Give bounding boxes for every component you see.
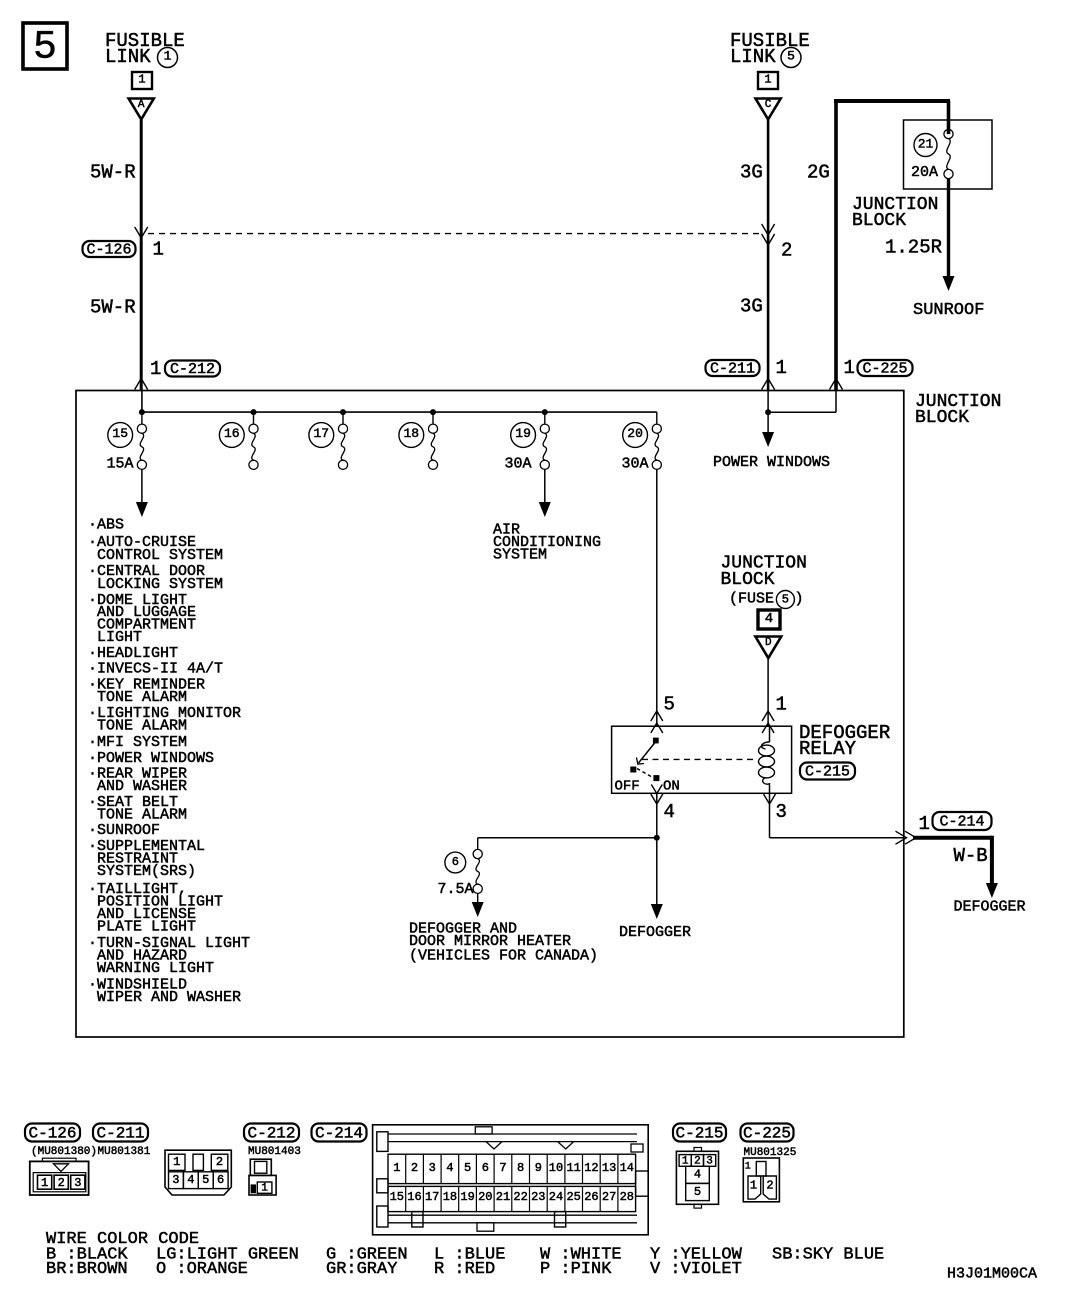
svg-text:12: 12 bbox=[584, 1161, 598, 1175]
label 5W-R lower bbox=[90, 297, 136, 319]
svg-text:6: 6 bbox=[452, 855, 459, 869]
triangle C (fusible link 5) bbox=[756, 99, 781, 120]
connector C-212 drawing bbox=[249, 1159, 276, 1195]
svg-text:1: 1 bbox=[750, 1179, 757, 1193]
connector label C-212 (bottom) bbox=[244, 1124, 299, 1143]
svg-text:4: 4 bbox=[765, 611, 773, 627]
fuse 15 bbox=[107, 412, 147, 472]
wire relay pin 4 to defogger bbox=[651, 793, 663, 919]
svg-text:·POWER WINDOWS: ·POWER WINDOWS bbox=[88, 750, 214, 767]
svg-text:1: 1 bbox=[150, 358, 161, 380]
svg-text:16: 16 bbox=[407, 1190, 421, 1204]
svg-text:4: 4 bbox=[664, 801, 675, 823]
svg-text:2: 2 bbox=[766, 1179, 773, 1193]
chevron entering junction block at C-211 bbox=[762, 379, 775, 390]
dashed harness line C-126 bbox=[148, 233, 762, 235]
wire fuse 15 to systems arrow bbox=[136, 469, 148, 517]
svg-text:28: 28 bbox=[620, 1190, 634, 1204]
junction dot fuse 16 tap bbox=[251, 409, 257, 415]
page number box 5 bbox=[23, 23, 67, 71]
fuse 19 bbox=[505, 412, 550, 472]
fuse bus wire bbox=[142, 391, 657, 413]
wire into fuse 21 box bbox=[947, 101, 951, 134]
svg-text:SB:SKY BLUE: SB:SKY BLUE bbox=[772, 1246, 884, 1265]
svg-text:3G: 3G bbox=[740, 162, 763, 184]
svg-text:13: 13 bbox=[602, 1161, 616, 1175]
connector label C-225 (bottom) bbox=[741, 1124, 794, 1143]
svg-text:1: 1 bbox=[261, 1183, 268, 1195]
fuse 6 bbox=[445, 849, 482, 893]
fuse 18 bbox=[399, 412, 438, 469]
connector C-211 drawing bbox=[165, 1150, 231, 1195]
svg-text:18: 18 bbox=[403, 426, 419, 441]
junction dot fuse 19 tap bbox=[542, 409, 548, 415]
svg-text:10: 10 bbox=[549, 1161, 563, 1175]
junction dot fuse 17 tap bbox=[340, 409, 346, 415]
svg-text:1: 1 bbox=[41, 1176, 48, 1190]
chevron at harness crossing, pin 2 bbox=[762, 224, 793, 262]
svg-text:·MFI SYSTEM: ·MFI SYSTEM bbox=[88, 734, 187, 751]
svg-text:RELAY: RELAY bbox=[799, 738, 857, 760]
svg-text:P :PINK: P :PINK bbox=[540, 1260, 612, 1279]
svg-text:2: 2 bbox=[58, 1176, 65, 1190]
connector label C-214 (bottom) bbox=[312, 1124, 367, 1143]
svg-text:O :ORANGE: O :ORANGE bbox=[156, 1260, 248, 1279]
circled 21 bbox=[914, 134, 937, 157]
svg-text:3: 3 bbox=[172, 1173, 179, 1187]
svg-text:TONE ALARM: TONE ALARM bbox=[97, 689, 187, 706]
svg-text:POWER WINDOWS: POWER WINDOWS bbox=[713, 454, 830, 471]
svg-text:21: 21 bbox=[496, 1190, 510, 1204]
svg-text:18: 18 bbox=[443, 1190, 457, 1204]
svg-text:(MU801380): (MU801380) bbox=[31, 1146, 97, 1158]
relay pin 1 label and chevrons bbox=[762, 694, 787, 733]
svg-text:(VEHICLES FOR CANADA): (VEHICLES FOR CANADA) bbox=[409, 948, 598, 965]
svg-text:(FUSE: (FUSE bbox=[729, 591, 774, 608]
svg-text:TONE ALARM: TONE ALARM bbox=[97, 717, 187, 734]
wire fuse 6 to arrow bbox=[472, 893, 484, 917]
relay pin 3 label and chevron bbox=[764, 794, 787, 823]
wire to fuse 6 branch bbox=[478, 838, 657, 850]
connector label C-215 bbox=[800, 763, 855, 781]
svg-text:6: 6 bbox=[217, 1173, 224, 1187]
svg-text:CONTROL SYSTEM: CONTROL SYSTEM bbox=[97, 547, 223, 564]
svg-text:3: 3 bbox=[74, 1176, 81, 1190]
svg-text:5: 5 bbox=[782, 593, 789, 607]
svg-text:22: 22 bbox=[513, 1190, 527, 1204]
svg-text:ON: ON bbox=[663, 778, 680, 794]
svg-text:5W-R: 5W-R bbox=[90, 162, 136, 184]
svg-text:5: 5 bbox=[664, 694, 675, 716]
svg-text:): ) bbox=[795, 591, 804, 608]
label DEFOGGER (C-214) bbox=[954, 899, 1026, 916]
wire to sunroof with arrow bbox=[943, 179, 955, 291]
triangle D bbox=[755, 637, 781, 659]
label 3G lower bbox=[740, 296, 763, 318]
svg-text:C-211: C-211 bbox=[96, 1124, 144, 1142]
relay pin 5 label and chevrons bbox=[651, 694, 675, 733]
junction block label (right side) bbox=[915, 392, 1001, 428]
terminal box 4 (fuse 5) bbox=[758, 610, 780, 629]
relay dashed actuator line bbox=[642, 758, 757, 760]
relay pin 4 label and chevron bbox=[651, 794, 675, 823]
svg-text:30A: 30A bbox=[505, 456, 532, 473]
svg-text:WIPER AND WASHER: WIPER AND WASHER bbox=[97, 989, 241, 1006]
wire: fusible link 1 to junction block (5W-R) bbox=[140, 119, 143, 390]
label 1.25R bbox=[885, 237, 942, 259]
svg-text:AND WASHER: AND WASHER bbox=[97, 778, 187, 795]
svg-text:5W-R: 5W-R bbox=[90, 297, 136, 319]
svg-text:2G: 2G bbox=[807, 162, 830, 184]
svg-text:15: 15 bbox=[390, 1190, 404, 1204]
svg-text:W-B: W-B bbox=[954, 845, 988, 867]
svg-text:8: 8 bbox=[517, 1161, 524, 1175]
svg-text:C-212: C-212 bbox=[247, 1124, 295, 1142]
svg-text:SUNROOF: SUNROOF bbox=[913, 301, 984, 320]
svg-text:17: 17 bbox=[425, 1190, 439, 1204]
svg-text:·SUNROOF: ·SUNROOF bbox=[88, 822, 160, 839]
svg-text:R :RED: R :RED bbox=[434, 1260, 495, 1279]
svg-text:1.25R: 1.25R bbox=[885, 237, 942, 259]
defogger relay box C-215 bbox=[612, 726, 792, 793]
svg-text:SYSTEM(SRS): SYSTEM(SRS) bbox=[97, 863, 196, 880]
svg-text:4: 4 bbox=[446, 1161, 453, 1175]
svg-text:5: 5 bbox=[787, 49, 795, 64]
part number MU801325 bbox=[744, 1147, 797, 1159]
label POWER WINDOWS bbox=[713, 454, 830, 471]
wire C-211/C-225 to power windows bbox=[762, 391, 836, 448]
svg-text:1: 1 bbox=[138, 73, 145, 87]
svg-text:1: 1 bbox=[844, 357, 855, 379]
svg-text:BLOCK: BLOCK bbox=[721, 570, 775, 590]
svg-text:A: A bbox=[138, 99, 145, 111]
svg-text:GR:GRAY: GR:GRAY bbox=[326, 1260, 397, 1279]
svg-text:1: 1 bbox=[393, 1161, 400, 1175]
chevron entering junction block at C-212 bbox=[135, 379, 148, 390]
connector label C-211, pin 1 bbox=[706, 357, 787, 379]
chevrons exiting junction block at C-214 bbox=[896, 831, 917, 844]
svg-text:·HEADLIGHT: ·HEADLIGHT bbox=[88, 645, 178, 662]
svg-text:1: 1 bbox=[919, 813, 930, 835]
junction dot fuse 18 tap bbox=[430, 409, 436, 415]
connector label C-212 bbox=[165, 361, 220, 379]
svg-text:LOCKING SYSTEM: LOCKING SYSTEM bbox=[97, 576, 223, 593]
connector label C-126 bbox=[83, 241, 136, 259]
fuse 15 load list bbox=[88, 517, 250, 1006]
fuse 20 bbox=[622, 412, 662, 472]
svg-text:11: 11 bbox=[566, 1161, 580, 1175]
svg-text:·INVECS-II 4A/T: ·INVECS-II 4A/T bbox=[88, 661, 223, 678]
svg-text:3: 3 bbox=[776, 801, 787, 823]
svg-text:MU801403: MU801403 bbox=[248, 1146, 301, 1158]
label W-B bbox=[954, 845, 988, 867]
svg-text:C-126: C-126 bbox=[28, 1124, 76, 1142]
label 5W-R upper bbox=[90, 162, 136, 184]
svg-text:17: 17 bbox=[313, 426, 329, 441]
connector C-214 drawing bbox=[373, 1125, 920, 1235]
chevron entering junction block at C-225 bbox=[830, 379, 843, 390]
relay coil bbox=[759, 726, 775, 793]
svg-text:BLOCK: BLOCK bbox=[852, 211, 906, 231]
connector label C-126 (bottom) bbox=[25, 1124, 80, 1143]
svg-text:27: 27 bbox=[602, 1190, 616, 1204]
svg-text:20: 20 bbox=[627, 426, 643, 441]
svg-text:4: 4 bbox=[187, 1173, 194, 1187]
svg-text:7.5A: 7.5A bbox=[438, 881, 474, 898]
wire fuse 19 to air conditioning arrow bbox=[539, 469, 551, 517]
label 2G bbox=[807, 162, 830, 184]
svg-text:14: 14 bbox=[620, 1161, 634, 1175]
sheet code H3J01M00CA bbox=[947, 1266, 1037, 1283]
fusible link 1 label bbox=[105, 30, 185, 68]
pin 1 and connector label C-214 bbox=[919, 812, 992, 835]
svg-text:SYSTEM: SYSTEM bbox=[493, 547, 547, 564]
svg-text:C-215: C-215 bbox=[675, 1124, 723, 1142]
connector terminal box 1 (fusible link 5) bbox=[758, 72, 778, 89]
svg-text:C-225: C-225 bbox=[862, 361, 907, 378]
part number MU801380 bbox=[31, 1146, 97, 1158]
connector C-225 drawing bbox=[743, 1158, 779, 1202]
wire relay pin 3 to C-214 bbox=[770, 793, 904, 837]
wire triangle D to relay pin 1 bbox=[767, 658, 769, 726]
pin 1 at C-126 bbox=[153, 239, 164, 261]
relay switch contacts bbox=[630, 738, 662, 794]
connector label C-211 (bottom) bbox=[93, 1124, 148, 1143]
junction block (fuse 5) label bbox=[721, 554, 807, 609]
label defogger and door mirror heater bbox=[409, 921, 598, 965]
connector C-126 drawing bbox=[30, 1158, 89, 1195]
svg-text:DEFOGGER: DEFOGGER bbox=[619, 924, 691, 941]
svg-text:21: 21 bbox=[918, 137, 934, 152]
connector terminal box 1 (fusible link 1) bbox=[132, 72, 152, 89]
svg-text:1: 1 bbox=[164, 49, 172, 64]
svg-text:15: 15 bbox=[112, 426, 128, 441]
svg-text:5: 5 bbox=[694, 1185, 701, 1199]
connector C-126 chevron on wire bbox=[135, 227, 148, 238]
svg-text:C-126: C-126 bbox=[86, 242, 131, 259]
svg-text:15A: 15A bbox=[107, 456, 134, 473]
svg-text:20A: 20A bbox=[911, 164, 938, 181]
svg-text:PLATE LIGHT: PLATE LIGHT bbox=[97, 918, 196, 935]
pin 1, connector label C-225 bbox=[844, 357, 913, 379]
svg-text:16: 16 bbox=[224, 426, 240, 441]
svg-text:TONE ALARM: TONE ALARM bbox=[97, 806, 187, 823]
svg-text:26: 26 bbox=[584, 1190, 598, 1204]
svg-text:LINK: LINK bbox=[730, 46, 776, 68]
part number MU801403 bbox=[248, 1146, 301, 1158]
svg-text:MU801325: MU801325 bbox=[744, 1147, 797, 1159]
svg-text:3: 3 bbox=[429, 1161, 436, 1175]
part number MU801381 bbox=[98, 1146, 151, 1158]
svg-text:7: 7 bbox=[499, 1161, 506, 1175]
svg-text:1: 1 bbox=[745, 1162, 751, 1173]
air conditioning system label bbox=[493, 522, 601, 564]
svg-text:C-214: C-214 bbox=[315, 1124, 363, 1142]
svg-text:C: C bbox=[765, 99, 772, 111]
svg-text:C-212: C-212 bbox=[170, 361, 215, 378]
thick wire W-B to defogger bbox=[913, 836, 998, 898]
svg-text:D: D bbox=[765, 637, 772, 649]
label SUNROOF bbox=[913, 301, 984, 320]
label 20A bbox=[911, 164, 938, 181]
svg-text:BR:BROWN: BR:BROWN bbox=[46, 1260, 128, 1279]
relay switch labels OFF ON bbox=[615, 778, 680, 794]
wire: fusible link 5 down to junction block (3G) bbox=[767, 119, 770, 390]
svg-text:6: 6 bbox=[482, 1161, 489, 1175]
junction dot fuse 15 tap bbox=[139, 409, 145, 415]
svg-text:H3J01M00CA: H3J01M00CA bbox=[947, 1266, 1037, 1283]
svg-text:C-214: C-214 bbox=[939, 814, 984, 831]
wire fuse 20 to relay pin 5 bbox=[656, 469, 658, 726]
svg-text:2: 2 bbox=[411, 1161, 418, 1175]
label DEFOGGER (pin 4) bbox=[619, 924, 691, 941]
svg-text:2: 2 bbox=[781, 240, 792, 262]
svg-text:MU801381: MU801381 bbox=[98, 1146, 151, 1158]
svg-text:LINK: LINK bbox=[105, 46, 151, 68]
pin 1 at C-212 bbox=[150, 358, 161, 380]
label 3G upper bbox=[740, 162, 763, 184]
svg-text:23: 23 bbox=[531, 1190, 545, 1204]
svg-text:5: 5 bbox=[202, 1173, 209, 1187]
label 7.5A bbox=[438, 881, 474, 898]
svg-text:1: 1 bbox=[173, 1155, 180, 1169]
junction block label (top right) bbox=[852, 195, 938, 231]
svg-text:DEFOGGER: DEFOGGER bbox=[954, 899, 1026, 916]
svg-text:25: 25 bbox=[566, 1190, 580, 1204]
svg-text:19: 19 bbox=[460, 1190, 474, 1204]
svg-text:5: 5 bbox=[33, 26, 57, 71]
svg-text:2: 2 bbox=[216, 1155, 223, 1169]
svg-text:BLOCK: BLOCK bbox=[915, 408, 969, 428]
triangle A (fusible link 1) bbox=[129, 99, 154, 120]
svg-text:·ABS: ·ABS bbox=[88, 517, 124, 534]
svg-text:4: 4 bbox=[694, 1168, 701, 1182]
svg-text:30A: 30A bbox=[622, 456, 649, 473]
junction block outline bbox=[76, 391, 904, 1038]
svg-text:3G: 3G bbox=[740, 296, 763, 318]
connector C-215 drawing bbox=[676, 1148, 718, 1209]
svg-text:C-211: C-211 bbox=[710, 361, 755, 378]
svg-text:20: 20 bbox=[478, 1190, 492, 1204]
wire 2G: top horizontal and vertical to junction block bbox=[834, 99, 950, 391]
fuse 17 bbox=[309, 412, 348, 469]
svg-text:1: 1 bbox=[776, 357, 787, 379]
svg-text:5: 5 bbox=[464, 1161, 471, 1175]
svg-text:24: 24 bbox=[549, 1190, 563, 1204]
svg-text:1: 1 bbox=[764, 73, 771, 87]
svg-text:1: 1 bbox=[153, 239, 164, 261]
relay label DEFOGGER RELAY bbox=[799, 722, 890, 760]
fuse 21 box (junction block) bbox=[904, 120, 993, 189]
svg-text:LIGHT: LIGHT bbox=[97, 629, 142, 646]
svg-text:V :VIOLET: V :VIOLET bbox=[650, 1260, 742, 1279]
fusible link 5 label bbox=[730, 30, 810, 68]
svg-text:OFF: OFF bbox=[615, 778, 640, 794]
svg-text:C-225: C-225 bbox=[743, 1124, 791, 1142]
fuse 16 bbox=[219, 412, 258, 469]
svg-text:9: 9 bbox=[535, 1161, 542, 1175]
svg-text:1: 1 bbox=[776, 694, 787, 716]
svg-text:19: 19 bbox=[515, 426, 531, 441]
svg-text:C-215: C-215 bbox=[805, 764, 850, 781]
connector label C-215 (bottom) bbox=[673, 1124, 726, 1143]
wire color code legend bbox=[46, 1230, 884, 1279]
svg-text:WARNING LIGHT: WARNING LIGHT bbox=[97, 960, 214, 977]
fuse element 21 bbox=[944, 129, 953, 178]
